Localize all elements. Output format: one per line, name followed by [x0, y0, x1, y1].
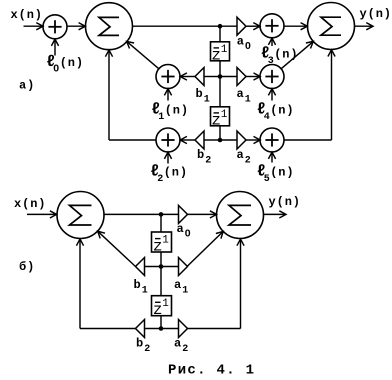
svg-text:Рис. 4. 1: Рис. 4. 1 [168, 362, 255, 378]
svg-text:1: 1 [182, 286, 188, 297]
svg-text:(n): (n) [270, 103, 294, 117]
adder U2 (noise adder in b2 feedback) [156, 128, 180, 152]
adder U1 (noise adder in b1 feedback) [156, 65, 180, 89]
svg-text:б): б) [19, 259, 35, 274]
summer S4 (right Σ, diagram b) [217, 192, 264, 239]
svg-text:4: 4 [264, 112, 270, 123]
wire middle node to gain b1 [204, 76, 220, 78]
label ℓ0(n) noise source [46, 53, 84, 74]
label ℓ4(n) noise source [257, 101, 295, 123]
wire gain a1 diagonal arrow into summer S4 [187, 231, 223, 266]
wire adder U4 diagonal arrow into summer S2 [281, 41, 313, 68]
wire gain b1 diagonal arrow into summer S3 [98, 231, 136, 266]
svg-text:a: a [177, 222, 185, 236]
wire a2 riser arrow into summer S4 bottom [237, 239, 244, 329]
wire middle node to gain b1 (b) [145, 266, 162, 268]
svg-text:x(n): x(n) [11, 8, 43, 22]
wire delay chain: Z2 to bottom node [219, 125, 221, 140]
svg-text:b: b [197, 148, 205, 162]
svg-text:(n): (n) [165, 103, 189, 117]
label b2 (b) [136, 337, 150, 356]
wire adder U5 riser arrow into summer S2 bottom [328, 50, 335, 140]
svg-text:1: 1 [162, 235, 169, 247]
wire adder U5 output right run [284, 139, 332, 141]
wire bottom node to gain a2 (b) [161, 328, 179, 330]
label ℓ2(n) noise source [150, 163, 188, 185]
wire gain b1 arrow into adder U1 [180, 73, 195, 80]
svg-text:1: 1 [221, 44, 228, 56]
wire x(n) input arrow into summer S3 [27, 211, 57, 218]
summer S3 (left Σ, diagram b) [57, 192, 104, 239]
node bottom tap of delay chain (b) [159, 326, 164, 331]
gain b1 (triangle, diagram a) [195, 68, 204, 86]
svg-text:(n): (n) [270, 165, 294, 179]
label ℓ5(n) noise source [257, 163, 295, 185]
label b1 (b) [134, 278, 148, 297]
svg-text:5: 5 [264, 174, 270, 185]
gain a0 (triangle, diagram b) [179, 205, 188, 223]
adder U3 (noise adder after a0) [260, 14, 284, 38]
wire delay chain: middle node to delay Z4 [160, 267, 162, 297]
gain b1 (triangle, diagram b) [136, 258, 145, 276]
wire gain a2 output right run (b) [187, 328, 241, 330]
delay Z3 (z^-1 upper, diagram b) [152, 232, 172, 255]
wire gain a0 arrow into summer S4 [187, 211, 217, 218]
svg-text:2: 2 [245, 156, 251, 167]
node top tap of delay chain (b) [159, 212, 164, 217]
wire ℓ4(n) noise arrow into adder U4 [268, 89, 275, 101]
wire delay chain: Z1 to middle node [219, 60, 221, 77]
svg-text:2: 2 [144, 344, 150, 355]
node top tap of delay chain (a) [218, 24, 223, 29]
svg-text:a: a [174, 337, 182, 351]
wire y(n) output arrow of summer S2 [355, 23, 374, 30]
gain b2 (triangle, diagram a) [195, 131, 204, 149]
wire gain b2 output left run (b) [80, 328, 136, 330]
gain b2 (triangle, diagram b) [136, 320, 145, 338]
wire delay chain: Z3 to middle node (b) [160, 252, 162, 267]
svg-text:1: 1 [245, 95, 251, 106]
wire S3 output to gain a0 top row (b) [104, 213, 179, 215]
summer S1 (left Σ, diagram a) [86, 3, 133, 50]
label a2 (b) [174, 337, 188, 356]
svg-text:y(n): y(n) [360, 7, 392, 21]
svg-text:(n): (n) [164, 165, 188, 179]
wire ℓ0(n) noise arrow into adder U0 [51, 39, 58, 55]
svg-text:a: a [237, 87, 245, 101]
wire ℓ3(n) noise arrow into adder U3 [268, 38, 275, 46]
summer S2 (right Σ, diagram a) [308, 3, 355, 50]
svg-text:a: a [237, 35, 245, 49]
wire ℓ5(n) noise arrow into adder U5 [268, 152, 275, 162]
wire ℓ2(n) noise arrow into adder U2 [164, 152, 171, 163]
wire gain a1 arrow into adder U4 [246, 73, 260, 80]
label a0 [237, 35, 251, 53]
adder U0 (input noise adder, diagram a) [43, 15, 67, 39]
wire delay chain: middle node to delay Z2 [219, 77, 221, 108]
wire adder U2 feedback riser arrow into summer S1 bottom [105, 50, 112, 140]
wire S1 output to gain a0 along top row [133, 25, 238, 27]
node bottom tap of delay chain (a) [218, 138, 223, 143]
svg-text:0: 0 [245, 40, 251, 52]
svg-text:2: 2 [182, 344, 188, 355]
wire gain a2 arrow into adder U5 [246, 136, 260, 143]
wire y(n) output arrow of summer S4 [264, 211, 287, 218]
svg-text:y(n): y(n) [269, 195, 301, 209]
label ℓ1(n) noise source [151, 101, 189, 123]
svg-text:1: 1 [221, 109, 228, 121]
svg-text:(n): (n) [274, 47, 298, 61]
svg-text:0: 0 [53, 62, 59, 74]
gain a1 (triangle, diagram a) [237, 68, 246, 86]
svg-text:1: 1 [162, 298, 169, 310]
gain a2 (triangle, diagram a) [237, 131, 246, 149]
wire delay chain: Z4 to bottom node (b) [160, 316, 162, 329]
label a1 [237, 87, 251, 106]
wire middle node to gain a1 (b) [161, 266, 179, 268]
label b2 [197, 148, 211, 167]
label ℓ3(n) noise source [261, 45, 299, 67]
adder U4 (noise adder after a1) [260, 65, 284, 89]
svg-text:1: 1 [204, 95, 210, 106]
delay Z1 (z^-1 upper, diagram a) [211, 42, 230, 65]
node middle tap of delay chain (a) [218, 74, 223, 79]
wire adder U2 output left run [109, 139, 156, 141]
svg-text:2: 2 [157, 174, 163, 185]
wire bottom node to gain b2 (b) [145, 328, 162, 330]
wire adder U3 output arrow into summer S2 [284, 23, 307, 30]
svg-text:1: 1 [158, 112, 164, 123]
delay Z4 (z^-1 lower, diagram b) [152, 296, 172, 319]
wire delay chain: top node to delay Z1 [219, 26, 221, 42]
wire ℓ1(n) noise arrow into adder U1 [164, 89, 171, 101]
wire b2 feedback riser arrow into summer S3 bottom [76, 239, 83, 329]
wire middle node to gain a1 [220, 76, 237, 78]
label a0 (b) [177, 222, 191, 240]
wire adder U1 diagonal arrow into summer S1 [127, 41, 159, 68]
svg-text:a: a [174, 278, 182, 292]
wire x(n) input arrow into adder U0 [24, 23, 44, 30]
delay Z2 (z^-1 lower, diagram a) [211, 107, 230, 130]
gain a0 (triangle, diagram a) [237, 17, 246, 35]
wire delay chain: top node to delay Z3 [160, 214, 162, 232]
wire bottom node to gain a2 [220, 139, 237, 141]
svg-text:a): a) [19, 79, 35, 93]
wire adder U0 output arrow into summer S1 [67, 23, 85, 30]
svg-text:b: b [196, 87, 204, 101]
wire gain b2 arrow into adder U2 [180, 136, 195, 143]
svg-text:0: 0 [185, 228, 191, 240]
label a2 [237, 148, 251, 167]
svg-text:2: 2 [205, 156, 211, 167]
svg-text:1: 1 [142, 286, 148, 297]
node middle tap of delay chain (b) [159, 264, 164, 269]
svg-text:x(n): x(n) [14, 197, 46, 211]
svg-text:b: b [136, 337, 144, 351]
label b1 [196, 87, 210, 106]
svg-text:b: b [134, 278, 142, 292]
svg-text:a: a [237, 148, 245, 162]
gain a1 (triangle, diagram b) [179, 258, 188, 276]
svg-text:(n): (n) [60, 56, 84, 70]
wire bottom node to gain b2 [204, 139, 220, 141]
adder U5 (noise adder after a2) [260, 128, 284, 152]
wire gain a0 arrow into adder U3 [246, 23, 260, 30]
label a1 (b) [174, 278, 188, 297]
gain a2 (triangle, diagram b) [179, 320, 188, 338]
